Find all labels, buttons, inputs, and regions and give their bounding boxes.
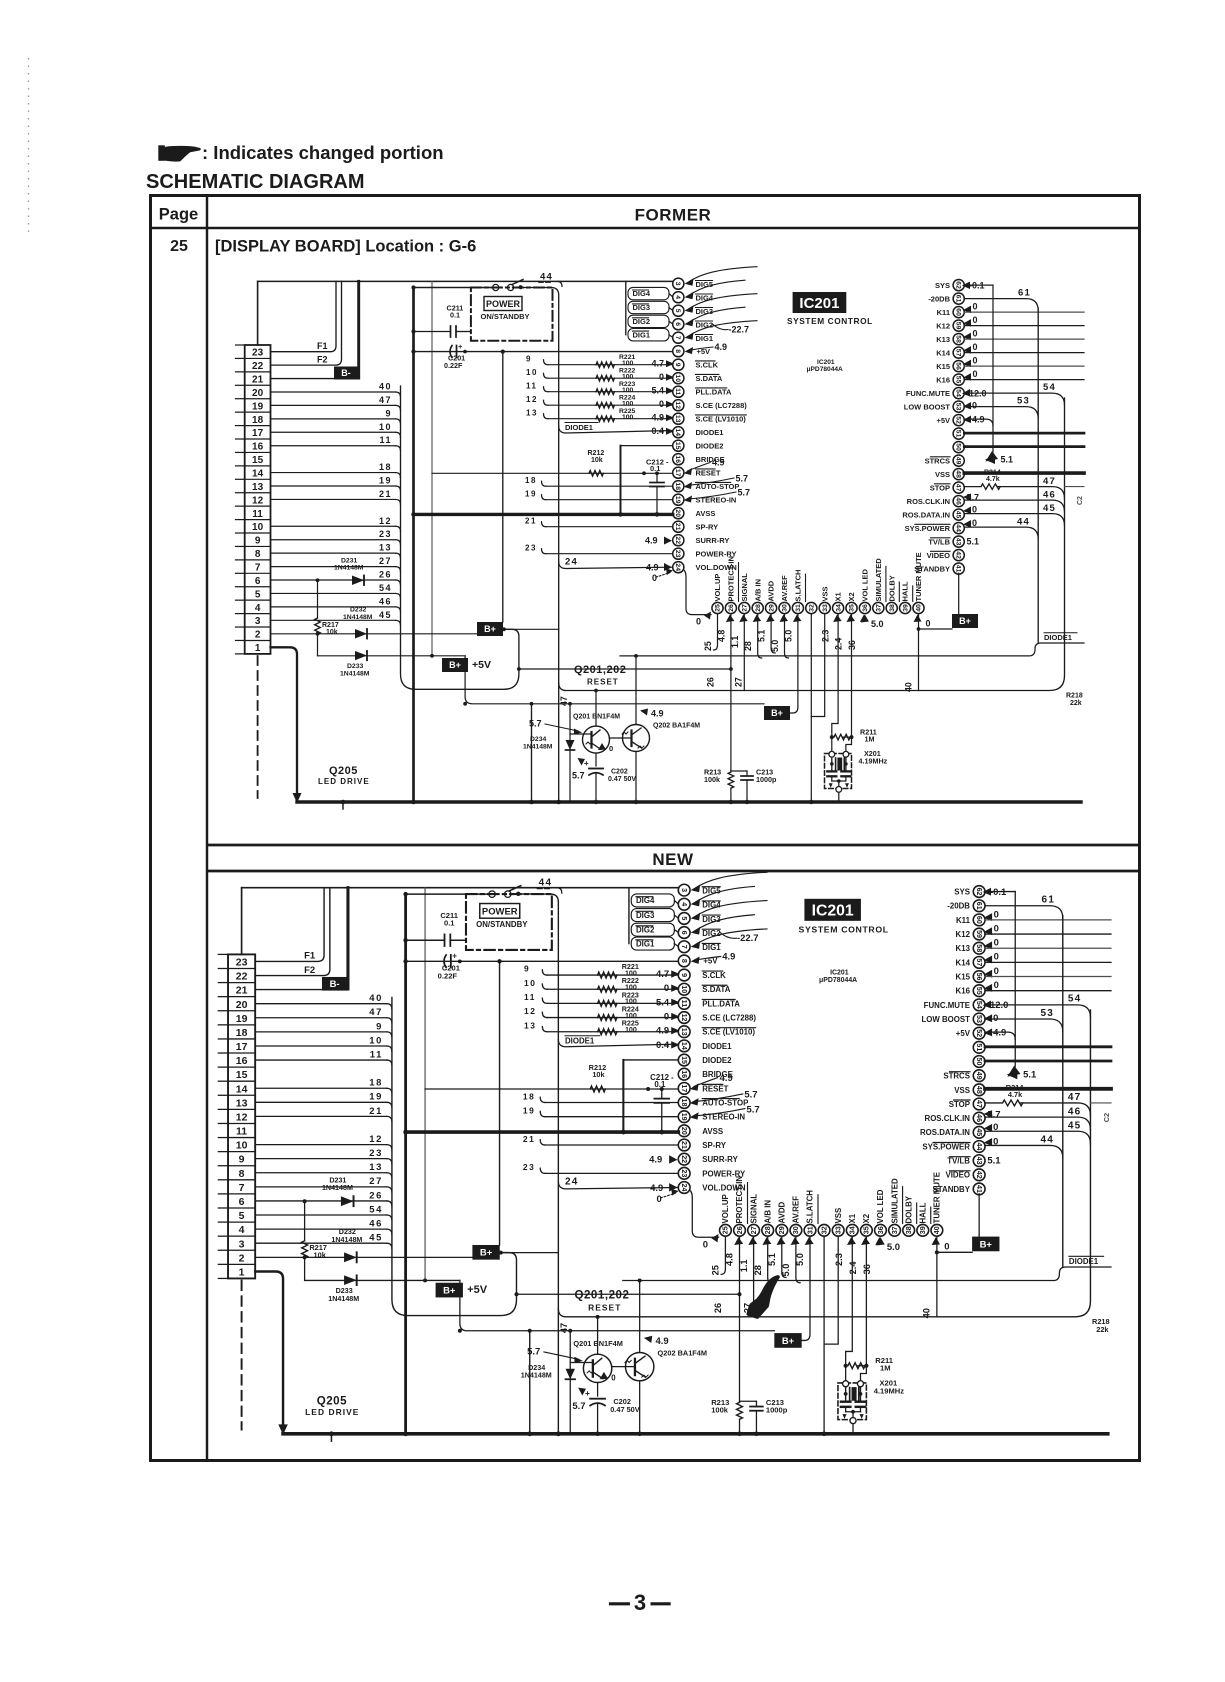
IC201 pin 35 (FORMER)	[846, 602, 857, 613]
junction (FORMER)	[517, 667, 521, 671]
table Page column divider	[206, 196, 208, 1461]
svg-text:8: 8	[255, 549, 261, 560]
net tag DIG3 (FORMER)	[628, 301, 669, 313]
wire connector pin10 net 12 (FORMER)	[271, 525, 396, 527]
svg-text:45: 45	[1068, 1121, 1082, 1132]
svg-text:4.9: 4.9	[650, 1183, 663, 1194]
wire pin33 VSS drop (NEW)	[824, 1236, 838, 1344]
svg-text:23: 23	[369, 1148, 383, 1159]
svg-text:DIODE1: DIODE1	[565, 1037, 595, 1046]
IC201 pin 58 (FORMER)	[953, 334, 964, 345]
svg-text:5.0: 5.0	[887, 1242, 900, 1253]
wire K15 row (FORMER)	[964, 365, 1084, 367]
svg-text:S.LATCH: S.LATCH	[794, 570, 803, 602]
svg-text:STANDBY: STANDBY	[914, 564, 950, 573]
svg-text:S.CLK: S.CLK	[702, 971, 726, 980]
wire pin21 to B- box (FORMER)	[271, 378, 359, 380]
IC201 pin 7 (NEW)	[678, 941, 690, 953]
wire connector pin3 net 45 (NEW)	[255, 1242, 387, 1244]
pointer at pin 34 (FORMER)	[833, 615, 842, 623]
svg-text:62: 62	[975, 888, 983, 896]
IC201 pin 29 (NEW)	[776, 1224, 788, 1236]
svg-text:4: 4	[674, 295, 681, 299]
svg-text:Q201,202: Q201,202	[574, 664, 626, 676]
svg-text:37: 37	[876, 604, 883, 612]
svg-text:ROS.DATA.IN: ROS.DATA.IN	[920, 1128, 970, 1137]
svg-text:D233: D233	[336, 1287, 353, 1295]
junction (NEW)	[660, 1087, 664, 1091]
svg-text:K15: K15	[936, 362, 950, 371]
svg-text:0: 0	[972, 401, 977, 411]
diode D232 (FORMER)	[355, 629, 367, 639]
wire pin26 drop (FORMER)	[730, 614, 732, 772]
svg-text:K16: K16	[956, 987, 971, 996]
svg-text:1N4148M: 1N4148M	[523, 744, 553, 751]
svg-text:50: 50	[975, 1058, 983, 1066]
IC201 pin 14 (NEW)	[678, 1040, 690, 1052]
IC201 pin 22 (FORMER)	[673, 535, 684, 546]
IC201 pin 43 (NEW)	[973, 1155, 985, 1167]
junction (FORMER)	[556, 800, 561, 805]
svg-text:VOL.UP: VOL.UP	[713, 574, 722, 602]
resistor R223 100 (NEW)	[598, 1000, 617, 1006]
svg-text:43: 43	[975, 1157, 983, 1165]
wire connector pin13 net 19 (NEW)	[255, 1101, 387, 1103]
svg-text:D234: D234	[528, 1364, 545, 1372]
junction (FORMER)	[809, 800, 813, 804]
wire switch to corner (NEW)	[511, 894, 558, 1434]
svg-text:0: 0	[994, 966, 999, 977]
svg-text:47: 47	[559, 1323, 569, 1333]
wire RESET row (NEW)	[425, 1088, 678, 1090]
transistor Q201 (FORMER)	[583, 726, 610, 753]
pointer at pin 35 (NEW)	[861, 1237, 870, 1245]
svg-text:12: 12	[524, 1006, 537, 1016]
svg-text:30: 30	[782, 604, 789, 612]
wire pin28 drop (FORMER)	[758, 614, 762, 658]
junction (NEW)	[458, 1329, 462, 1333]
svg-text:21: 21	[252, 374, 264, 385]
svg-text:57: 57	[955, 349, 962, 357]
svg-text:A/B IN: A/B IN	[753, 579, 762, 602]
svg-text:Q205: Q205	[317, 1395, 347, 1407]
svg-text:5: 5	[680, 916, 688, 920]
svg-text:19: 19	[680, 1113, 688, 1121]
svg-text:B+: B+	[484, 624, 496, 634]
net B+ box3 (FORMER)	[764, 706, 790, 720]
svg-text:31: 31	[795, 604, 802, 612]
svg-text:100: 100	[622, 400, 634, 407]
svg-text:12: 12	[526, 395, 538, 404]
svg-text:PROTECT-IN: PROTECT-IN	[727, 556, 736, 601]
net B+ box2 (NEW)	[436, 1283, 463, 1298]
IC201 pin 18 (FORMER)	[673, 481, 684, 492]
junction (NEW)	[403, 959, 407, 963]
IC201 pin 33 (FORMER)	[819, 602, 830, 613]
IC U201 IC201 title box (FORMER)	[793, 292, 847, 313]
wire K16 row (NEW)	[985, 990, 1111, 992]
svg-text:100: 100	[625, 969, 637, 977]
IC201 pin 39 (NEW)	[917, 1224, 929, 1236]
transistor Q201 (NEW)	[583, 1354, 611, 1382]
svg-text:B+: B+	[443, 1285, 456, 1296]
svg-text:4: 4	[255, 603, 261, 614]
svg-text:17: 17	[252, 428, 264, 439]
wire Q201 emitter (NEW)	[597, 1383, 599, 1397]
svg-text:7: 7	[674, 336, 681, 340]
net B- box (FORMER)	[334, 367, 358, 380]
svg-text:SIMULATED: SIMULATED	[890, 1178, 899, 1224]
svg-text:-22.7: -22.7	[729, 324, 750, 334]
wire +5V row left (NEW)	[305, 1279, 460, 1281]
svg-text:SYS.POWER: SYS.POWER	[905, 524, 951, 533]
svg-text:17: 17	[680, 1084, 688, 1092]
svg-text:0: 0	[994, 980, 999, 991]
svg-text:30: 30	[792, 1226, 800, 1234]
IC201 pin 49 (FORMER)	[953, 455, 964, 466]
svg-text:VSS: VSS	[834, 1208, 843, 1224]
svg-text:Q201,202: Q201,202	[574, 1289, 629, 1301]
wire main B+ vertical (NEW)	[404, 894, 407, 1434]
svg-text:45: 45	[369, 1233, 383, 1244]
net tag DIG3 (NEW)	[631, 909, 674, 922]
svg-text:11: 11	[236, 1126, 247, 1138]
wire pin29 drop (FORMER)	[771, 614, 775, 653]
svg-text:8: 8	[239, 1168, 245, 1180]
resistor R211 1M (FORMER)	[834, 734, 850, 740]
svg-text:12: 12	[674, 401, 681, 409]
arc pointer DIG5 (NEW)	[696, 872, 767, 888]
svg-text:54: 54	[369, 1204, 383, 1215]
wire vertical to rail (NEW)	[529, 1331, 531, 1434]
wire pin47 hook 47 (FORMER)	[997, 487, 1065, 499]
wire switch feed (FORMER)	[414, 287, 492, 289]
svg-text:32: 32	[820, 1226, 828, 1234]
svg-text:19: 19	[674, 496, 681, 504]
POWER box border (NEW)	[466, 894, 552, 950]
svg-text:K13: K13	[956, 944, 971, 953]
wire net 47 long bus (FORMER)	[559, 398, 1065, 691]
wire vertical to B+ box1 (FORMER)	[502, 352, 504, 622]
svg-text:2.3: 2.3	[834, 1253, 844, 1266]
svg-text:AVDD: AVDD	[778, 1201, 787, 1223]
svg-text:DIG2: DIG2	[633, 317, 651, 326]
IC201 pin 58 (NEW)	[973, 942, 985, 954]
wire X1 to crystal (FORMER)	[832, 614, 838, 752]
svg-text:10k: 10k	[314, 1251, 327, 1260]
crystal X201 pads (FORMER)	[829, 751, 835, 757]
svg-text:ROS.CLK.IN: ROS.CLK.IN	[907, 497, 950, 506]
wire connector pin8 net 13 (NEW)	[255, 1172, 387, 1174]
junction (FORMER)	[411, 800, 416, 805]
capacitor C213 (FORMER)	[731, 770, 747, 772]
svg-text:41: 41	[955, 565, 962, 573]
svg-text:47: 47	[975, 1100, 983, 1108]
svg-text:X1: X1	[848, 1213, 857, 1223]
capacitor C211 (FORMER)	[414, 331, 451, 333]
wire pin40 drop (FORMER)	[918, 614, 920, 691]
svg-text:55: 55	[975, 987, 983, 995]
svg-text:26: 26	[706, 677, 716, 687]
wire B+ box2 drop (FORMER)	[465, 656, 764, 704]
IC201 pin 25 (NEW)	[720, 1224, 732, 1236]
svg-text:42: 42	[955, 551, 962, 559]
junction (NEW)	[638, 1279, 642, 1283]
svg-text:F2: F2	[304, 965, 315, 976]
svg-text:5.1: 5.1	[1001, 454, 1014, 464]
IC201 pin 54 (FORMER)	[953, 388, 964, 399]
IC201 pin 23 (FORMER)	[673, 548, 684, 559]
svg-text:53: 53	[955, 403, 962, 411]
svg-text:7: 7	[680, 945, 688, 949]
svg-text:[DISPLAY BOARD] Location : G-: [DISPLAY BOARD] Location : G-6	[215, 238, 476, 256]
svg-text:22k: 22k	[1096, 1325, 1109, 1334]
svg-text:17: 17	[236, 1041, 248, 1053]
IC201 pin 3 (NEW)	[678, 884, 690, 896]
svg-text:C2: C2	[1102, 1113, 1111, 1122]
IC201 pin 36 (NEW)	[875, 1224, 887, 1236]
wire K12 row (FORMER)	[964, 325, 1084, 327]
wire F1 from pin23 (NEW)	[255, 888, 324, 962]
svg-text:5.4: 5.4	[651, 386, 664, 396]
svg-text:21: 21	[680, 1141, 688, 1149]
svg-text:59: 59	[975, 930, 983, 938]
IC201 pin 39 (FORMER)	[900, 602, 911, 613]
svg-text:40: 40	[379, 381, 392, 391]
svg-text:K16: K16	[936, 375, 950, 384]
wire DIG3 tag to pin (FORMER)	[669, 308, 673, 311]
wire pin25 drop (NEW)	[721, 1236, 725, 1274]
svg-text:ON/STANDBY: ON/STANDBY	[481, 312, 530, 321]
svg-text:SP-RY: SP-RY	[702, 1141, 727, 1150]
svg-text:28: 28	[764, 1226, 772, 1234]
wire K11 row (FORMER)	[964, 311, 1084, 313]
IC201 pin 28 (FORMER)	[752, 602, 763, 613]
IC201 pin 60 (NEW)	[973, 914, 985, 926]
wire connector pin7 net 27 (NEW)	[255, 1186, 387, 1188]
svg-text:13: 13	[236, 1097, 248, 1109]
svg-text:51: 51	[955, 430, 962, 438]
junction (FORMER)	[411, 512, 415, 516]
svg-text:1N4148M: 1N4148M	[322, 1184, 353, 1192]
capacitor pair in X201 (FORMER)	[827, 770, 836, 772]
pointer at pin 28 (NEW)	[762, 1237, 771, 1245]
resistor R223 100 (FORMER)	[596, 389, 614, 395]
wire switch to corner (FORMER)	[514, 288, 559, 803]
svg-text:SYS.POWER: SYS.POWER	[922, 1142, 970, 1151]
svg-text:21: 21	[525, 517, 537, 526]
wire vertical right A (NEW)	[1062, 916, 1064, 1267]
IC201 pin 23 (NEW)	[678, 1167, 690, 1179]
wire gray vertical (FORMER)	[431, 281, 433, 655]
svg-text:18: 18	[525, 476, 537, 485]
svg-text:FUNC.MUTE: FUNC.MUTE	[906, 389, 950, 398]
svg-text:9: 9	[255, 536, 261, 547]
svg-text:3: 3	[674, 282, 681, 286]
svg-text:DIG3: DIG3	[633, 303, 651, 312]
wire AVSS thick (FORMER)	[414, 513, 673, 516]
wire R212 vertical (NEW)	[622, 1060, 624, 1132]
wire pin62 stub (FORMER)	[964, 284, 993, 286]
svg-text:47: 47	[1068, 1092, 1082, 1103]
junction switch node (FORMER)	[519, 285, 523, 289]
net B+ box4 (NEW)	[972, 1237, 999, 1252]
left margin scan artifact dots	[28, 58, 30, 232]
svg-text:μPD78044A: μPD78044A	[807, 366, 844, 373]
wire thick row pin50 (NEW)	[985, 1060, 1111, 1063]
svg-text:AVSS: AVSS	[702, 1127, 723, 1136]
wire pin46 hook 46 (NEW)	[985, 1117, 1090, 1130]
wire +5V row right (NEW)	[623, 1267, 1111, 1281]
wire connector pin9 net 23 (NEW)	[255, 1158, 387, 1160]
svg-text:10k: 10k	[592, 1070, 605, 1079]
svg-text:C202: C202	[611, 769, 628, 776]
wire connector pin7 net 27 (FORMER)	[271, 566, 396, 568]
IC201 pin 55 (FORMER)	[953, 374, 964, 385]
IC201 pin 53 (FORMER)	[953, 401, 964, 412]
svg-text:100: 100	[622, 387, 634, 394]
IC201 pin 52 (FORMER)	[953, 415, 964, 426]
net DIODE1 wire (NEW)	[558, 1039, 678, 1046]
svg-text:FORMER: FORMER	[635, 206, 712, 225]
IC201 pin 61 (NEW)	[973, 900, 985, 912]
IC201 pin 59 (NEW)	[973, 928, 985, 940]
IC201 pin 41 (NEW)	[973, 1183, 985, 1195]
svg-text:23: 23	[680, 1169, 688, 1177]
svg-text:PLL.DATA: PLL.DATA	[696, 388, 733, 397]
wire aux rail (NEW)	[516, 1293, 739, 1295]
junction (NEW)	[403, 1431, 408, 1436]
changed-portion arrow marker	[748, 1277, 778, 1317]
switch S201 contact A (FORMER)	[493, 284, 499, 290]
svg-text:24: 24	[674, 563, 681, 571]
IC201 pin 32 (NEW)	[818, 1224, 830, 1236]
crystal X201 box (NEW)	[838, 1383, 866, 1420]
junction (NEW)	[514, 1292, 518, 1296]
capacitor C212 (FORMER)	[656, 473, 658, 482]
svg-text:27: 27	[734, 677, 744, 687]
junction (NEW)	[499, 1251, 503, 1255]
wire B+ box4 left (NEW)	[937, 1251, 972, 1253]
wire DIG2 tag to pin (NEW)	[674, 930, 678, 933]
diode D234 (NEW)	[569, 1331, 571, 1434]
svg-text:39: 39	[902, 604, 909, 612]
wire DIODE2 stub (NEW)	[623, 1059, 678, 1061]
svg-text:+: +	[585, 1388, 590, 1398]
junction (NEW)	[738, 1292, 742, 1296]
svg-text:1N4148M: 1N4148M	[328, 1295, 359, 1303]
svg-text:VOL LED: VOL LED	[861, 569, 870, 602]
wire B+ box1 right (FORMER)	[503, 628, 559, 630]
svg-text:62: 62	[955, 281, 962, 289]
svg-text:23: 23	[525, 544, 537, 553]
svg-text:0.1: 0.1	[450, 311, 460, 320]
svg-text:DIODE1: DIODE1	[696, 428, 724, 437]
svg-text:5.7: 5.7	[572, 1401, 585, 1412]
net B+ box1 (FORMER)	[477, 622, 503, 636]
svg-text:27: 27	[742, 604, 749, 612]
capacitor C201 (FORMER)	[450, 346, 452, 358]
wire Q202 collector (NEW)	[639, 1281, 641, 1353]
wire pin52 to STRCS (FORMER)	[964, 419, 993, 426]
svg-text:52: 52	[955, 416, 962, 424]
IC201 pin 44 (NEW)	[973, 1141, 985, 1153]
svg-text:4.7: 4.7	[651, 359, 664, 369]
wire pin33 VSS drop (FORMER)	[811, 614, 824, 717]
svg-text:4.9: 4.9	[712, 458, 725, 468]
svg-text:3: 3	[680, 888, 688, 892]
svg-text:19: 19	[369, 1092, 383, 1103]
wire +B rail to IC pin8 (FORMER)	[414, 351, 673, 353]
wire connector pin6 net 26 (NEW)	[255, 1200, 387, 1202]
svg-text:36: 36	[877, 1226, 885, 1234]
svg-text:LOW BOOST: LOW BOOST	[921, 1015, 970, 1024]
svg-text:DOLBY: DOLBY	[887, 575, 896, 601]
svg-text:26: 26	[713, 1303, 723, 1313]
svg-text:B+: B+	[480, 1248, 493, 1259]
svg-text:4.9: 4.9	[645, 536, 658, 546]
junction (FORMER)	[917, 627, 921, 631]
svg-text:4.9: 4.9	[993, 1028, 1006, 1039]
wire pin46 hook 46 (FORMER)	[964, 500, 1064, 512]
svg-text:STRCS: STRCS	[925, 456, 950, 465]
junction (FORMER)	[642, 471, 646, 475]
junction (NEW)	[497, 959, 501, 963]
junction (NEW)	[403, 1130, 408, 1135]
svg-text:4.9: 4.9	[651, 413, 664, 423]
diode D233 (NEW)	[344, 1275, 357, 1285]
wire DIG1 tag to pin (NEW)	[674, 944, 678, 947]
wire pin62 stub (NEW)	[985, 891, 1015, 893]
svg-text:46: 46	[1068, 1106, 1082, 1117]
svg-text:IC201: IC201	[817, 359, 835, 366]
changed-portion pointer icon	[158, 145, 165, 161]
svg-text:100: 100	[625, 983, 637, 991]
IC201 pin 62 (FORMER)	[953, 280, 964, 291]
svg-text:-22.7: -22.7	[737, 933, 759, 944]
svg-text:4.19MHz: 4.19MHz	[874, 1386, 904, 1395]
wire thick row pin50 (FORMER)	[964, 445, 1084, 448]
svg-text:24: 24	[680, 1184, 688, 1192]
svg-text:60: 60	[955, 308, 962, 316]
svg-text:K12: K12	[956, 930, 971, 939]
junction (NEW)	[329, 1431, 334, 1436]
svg-text:SCHEMATIC DIAGRAM: SCHEMATIC DIAGRAM	[146, 171, 365, 193]
wire connector pin13 net 19 (FORMER)	[271, 485, 396, 487]
IC201 pin 15 (NEW)	[678, 1054, 690, 1066]
svg-text:9: 9	[385, 408, 392, 418]
svg-text:B-: B-	[330, 979, 340, 990]
svg-text:53: 53	[1040, 1008, 1054, 1019]
pointer at pin 30 (NEW)	[791, 1237, 800, 1245]
svg-text:11: 11	[524, 992, 536, 1002]
POWER label box (NEW)	[480, 904, 520, 919]
svg-text:26: 26	[379, 570, 392, 580]
wire connector pin16 net 11 (NEW)	[255, 1059, 387, 1061]
wire vertical to rail (FORMER)	[531, 704, 533, 802]
svg-text:19: 19	[379, 476, 392, 486]
IC201 pin 22 (NEW)	[678, 1153, 690, 1165]
resistor R212 (NEW)	[590, 1086, 605, 1092]
wire row2 to B+ box1 (NEW)	[255, 1256, 472, 1258]
svg-text:1N4148M: 1N4148M	[343, 614, 373, 621]
IC201 pin 25 (FORMER)	[712, 602, 723, 613]
IC201 pin 56 (NEW)	[973, 971, 985, 983]
IC201 pin 4 (FORMER)	[673, 292, 684, 303]
svg-text:HALL: HALL	[918, 1202, 927, 1223]
wire Q202 emitter (FORMER)	[635, 752, 637, 803]
table header separator	[151, 227, 1140, 229]
